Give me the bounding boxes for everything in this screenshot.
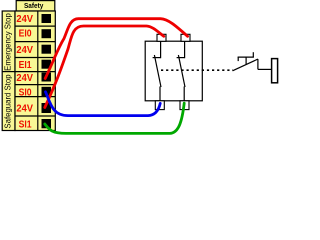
NC contact 2: [177, 41, 185, 101]
actuator lever end vertical: [257, 59, 259, 69]
svg-text:24V: 24V: [16, 45, 33, 56]
terminal 24V (row7): [16, 103, 51, 115]
actuator lever diagonal: [233, 59, 258, 71]
top terminal pin (left): [157, 34, 166, 41]
svg-text:24V: 24V: [16, 73, 33, 84]
svg-text:SI1: SI1: [19, 119, 32, 130]
svg-text:Safety: Safety: [24, 1, 43, 10]
terminal SI0 (row6): [19, 87, 51, 99]
bottom terminal pin (right): [180, 101, 189, 110]
actuator plate rectangle: [272, 59, 278, 83]
bottom terminal pin (left): [155, 101, 164, 110]
top terminal pin (right): [181, 34, 190, 41]
wire green SI1 to right contact bottom: [45, 103, 184, 133]
svg-text:24V: 24V: [16, 14, 33, 25]
terminal SI1 (row8): [19, 119, 51, 130]
actuator head bar: [238, 56, 254, 58]
actuator head stem: [245, 57, 247, 65]
wire red 24V(row7) to left contact top: [45, 26, 164, 108]
terminal EI1 (row4): [19, 60, 51, 71]
svg-text:EI0: EI0: [19, 29, 32, 40]
group label strip Emergency Stop / Safeguard Stop: [2, 11, 15, 131]
svg-text:EI1: EI1: [19, 60, 32, 71]
actuator rod horizontal: [258, 68, 272, 70]
wire red 24V(row5) to right contact top: [45, 19, 187, 79]
terminal 24V (row1): [16, 14, 51, 25]
svg-text:Safeguard Stop: Safeguard Stop: [4, 74, 13, 129]
mechanical linkage dotted line: [161, 69, 233, 71]
terminal 24V (row3): [16, 45, 51, 56]
wire blue SI0 to left contact bottom: [46, 92, 161, 116]
terminal EI0 (row2): [19, 29, 51, 40]
terminal 24V (row5): [16, 73, 51, 84]
NC contact 1: [153, 41, 161, 101]
actuator head left leg: [237, 57, 239, 61]
terminal rows table: [15, 11, 55, 131]
svg-text:SI0: SI0: [19, 87, 32, 98]
svg-text:Emergency Stop: Emergency Stop: [4, 13, 13, 71]
terminal block header "Safety": [16, 1, 55, 11]
actuator head right tick: [252, 52, 254, 57]
svg-text:24V: 24V: [16, 104, 33, 115]
switch body box: [145, 41, 202, 101]
